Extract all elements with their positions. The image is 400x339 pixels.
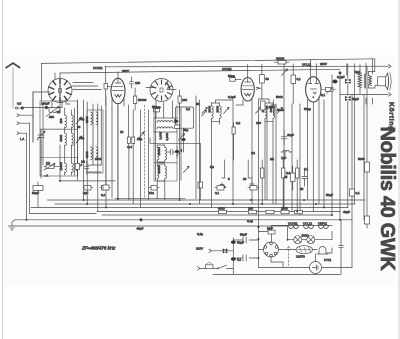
mains switch xyxy=(217,265,233,269)
svg-text:160µF: 160µF xyxy=(41,102,50,106)
resistor bus row 1 xyxy=(218,207,227,214)
IF T3 pair upper xyxy=(157,145,182,162)
svg-text:48µF: 48µF xyxy=(137,227,144,231)
wire top rail C xyxy=(60,69,340,73)
thermo dome xyxy=(317,247,328,255)
pot arrow V5 xyxy=(282,69,288,76)
resistor V5 left xyxy=(260,65,270,100)
wire bus y215 xyxy=(102,214,332,216)
wire h180 xyxy=(60,180,115,182)
tube V2 xyxy=(111,72,125,104)
node terminal A1 xyxy=(17,114,24,117)
tube V5 xyxy=(302,60,327,103)
wire antenna row xyxy=(24,101,63,108)
svg-text:50: 50 xyxy=(196,102,200,106)
coil OSC4 xyxy=(96,147,98,160)
svg-text:5µF: 5µF xyxy=(355,70,360,74)
wire top rail A xyxy=(42,59,375,64)
svg-text:UCL11: UCL11 xyxy=(303,222,312,226)
svg-text:50µµ: 50µµ xyxy=(228,74,235,78)
wire pairA xyxy=(212,100,234,207)
speaker xyxy=(378,73,391,90)
wire bus y226 xyxy=(15,225,287,227)
svg-text:50µF: 50µF xyxy=(32,191,39,195)
dashed gang line right xyxy=(144,105,146,198)
cap hang right xyxy=(300,170,307,191)
wire heater top xyxy=(283,224,332,226)
mains vertical xyxy=(232,238,234,274)
svg-text:50000: 50000 xyxy=(138,98,147,102)
svg-text:290V: 290V xyxy=(320,62,327,66)
mains terminal 1 xyxy=(196,247,233,253)
fuse xyxy=(206,263,219,269)
svg-text:30: 30 xyxy=(243,177,247,181)
grid cap 500 xyxy=(152,105,161,112)
svg-text:500µµ: 500µµ xyxy=(152,105,161,109)
svg-text:UCH11: UCH11 xyxy=(288,222,298,226)
wire bus y211 xyxy=(97,211,340,213)
wire term3 drop xyxy=(25,133,27,220)
cap blob 2 xyxy=(231,257,242,261)
resistor RF col xyxy=(75,157,79,176)
svg-text:L A: L A xyxy=(20,137,24,141)
svg-text:UCH11: UCH11 xyxy=(93,66,103,70)
resistor bus row 2 xyxy=(248,207,257,214)
grid box V2 xyxy=(104,66,110,106)
svg-text:40µF: 40µF xyxy=(343,210,350,214)
pot arrow 5000 xyxy=(44,164,55,171)
wire bus y200 xyxy=(48,199,366,201)
shield divider RF xyxy=(40,129,78,157)
resistor row mid 2 xyxy=(243,160,254,188)
resistor V5 left2 xyxy=(291,64,301,104)
cap below V5 row2 xyxy=(271,100,284,115)
coil OSC2 xyxy=(96,112,98,125)
svg-text:0,5: 0,5 xyxy=(17,102,22,106)
capacitor bowtie 1 xyxy=(345,64,351,95)
svg-text:50µF: 50µF xyxy=(352,97,359,101)
coil OSC1 xyxy=(85,112,92,125)
svg-text:25: 25 xyxy=(57,110,61,114)
node terminal E xyxy=(17,132,25,135)
wire V3 drops xyxy=(156,96,200,204)
IF T2 box xyxy=(154,118,177,141)
resistor row mid 4 xyxy=(282,160,291,207)
node dot x340 xyxy=(339,72,341,74)
svg-text:0,1: 0,1 xyxy=(297,77,302,81)
coil 500 antenna xyxy=(46,107,60,120)
node dot bus xyxy=(140,219,142,221)
capacitor 4uF b xyxy=(100,186,110,191)
resistor 1ohm xyxy=(46,161,54,168)
node dot power xyxy=(287,239,289,241)
resistor top H xyxy=(275,57,290,65)
wire V2 pins xyxy=(112,98,124,199)
wire bus y213 left xyxy=(30,213,97,215)
grid cap V3 xyxy=(178,90,187,112)
svg-text:40µF: 40µF xyxy=(287,133,294,137)
capacitor antenna coupling xyxy=(16,107,24,109)
svg-text:10000: 10000 xyxy=(157,147,161,156)
heater hump 2 xyxy=(303,222,314,229)
capacitor 160pF xyxy=(41,102,50,109)
heater resistor NSF xyxy=(267,227,275,235)
barretter oval xyxy=(296,246,312,259)
svg-text:10n: 10n xyxy=(149,191,154,195)
output transformer xyxy=(358,65,378,95)
svg-text:50µµ: 50µµ xyxy=(304,107,311,111)
capacitor bowtie 2 xyxy=(345,96,359,207)
wire ground bus xyxy=(15,219,352,221)
node terminal A2 xyxy=(17,122,24,125)
wire transformer rails xyxy=(366,59,373,104)
wire V4 pins xyxy=(236,100,252,205)
wire top rail B xyxy=(105,65,388,68)
svg-text:UCL11: UCL11 xyxy=(302,63,311,67)
svg-text:2Ω: 2Ω xyxy=(270,157,275,161)
cap 40uF plus xyxy=(282,130,295,145)
wire V1 drops xyxy=(52,100,70,112)
power socket xyxy=(264,242,279,257)
svg-text:100: 100 xyxy=(59,118,63,123)
svg-text:0,1: 0,1 xyxy=(356,191,361,195)
cap mid 1 xyxy=(215,186,226,196)
svg-text:500: 500 xyxy=(49,115,54,119)
shield box IFT2 xyxy=(154,105,177,181)
lamp 1 xyxy=(294,236,302,244)
ground xyxy=(9,220,16,230)
resistor row mid 5 xyxy=(296,160,299,211)
svg-text:→A: →A xyxy=(43,174,48,178)
svg-text:0,1µF: 0,1µF xyxy=(228,95,236,99)
resistor row mid 3 xyxy=(261,160,264,204)
label cluster extras xyxy=(57,70,360,236)
svg-text:ZF=468/476 kHz: ZF=468/476 kHz xyxy=(81,246,116,251)
variable cap gang right xyxy=(137,132,144,140)
wire pairB xyxy=(258,99,273,204)
svg-text:10000: 10000 xyxy=(59,162,63,171)
cap mains pair2 xyxy=(238,255,254,261)
wire power internals xyxy=(258,225,332,267)
svg-text:5000: 5000 xyxy=(59,134,63,141)
svg-text:30µ: 30µ xyxy=(79,117,84,121)
svg-text:5000: 5000 xyxy=(277,108,284,112)
svg-text:NSF: NSF xyxy=(267,227,273,231)
svg-text:220V: 220V xyxy=(196,247,203,251)
svg-text:4000: 4000 xyxy=(218,207,225,211)
dashed gang line xyxy=(40,141,42,175)
resistor hang right xyxy=(284,166,295,190)
antenna xyxy=(6,63,19,108)
svg-text:0,1µ: 0,1µ xyxy=(197,232,203,236)
wire V1 top xyxy=(55,73,60,79)
IF pair A xyxy=(202,103,229,121)
capacitor 4uF xyxy=(83,186,93,196)
wire bus y207 xyxy=(31,206,348,208)
wire rf join xyxy=(43,104,65,165)
svg-text:U2070: U2070 xyxy=(296,255,305,259)
pot tube5 right xyxy=(322,88,337,94)
cap mid 2 xyxy=(248,186,259,191)
junction dots buses xyxy=(26,180,342,259)
variable cap gang left xyxy=(37,130,45,178)
wire h198 xyxy=(115,198,185,200)
resistor bus row 5 xyxy=(295,210,303,213)
wire lamps xyxy=(288,232,332,240)
svg-text:UCH11: UCH11 xyxy=(222,67,232,71)
svg-text:0,003: 0,003 xyxy=(159,132,163,140)
shield RF1 xyxy=(75,100,78,180)
svg-text:1Ω: 1Ω xyxy=(81,160,86,164)
page edge left xyxy=(2,0,4,339)
trimmer T2 xyxy=(76,136,82,143)
wire mid verticals xyxy=(84,96,106,212)
coil OSC3 xyxy=(85,147,92,160)
capacitor 10 xyxy=(149,186,159,196)
tube V3 socket xyxy=(146,79,176,102)
IF T3 pair lower xyxy=(157,164,189,181)
right small box 2 xyxy=(365,216,370,224)
svg-text:0,1: 0,1 xyxy=(101,193,106,197)
svg-text:5Ω: 5Ω xyxy=(210,165,215,169)
box 0,1 on diode line xyxy=(198,182,203,200)
IF T2 trimmer xyxy=(179,134,185,141)
wire speaker corner xyxy=(340,59,391,96)
svg-text:50µF: 50µF xyxy=(240,233,247,237)
wire term1 drop xyxy=(24,92,34,142)
svg-text:3000: 3000 xyxy=(215,105,219,112)
svg-text:50: 50 xyxy=(266,77,270,81)
wire V5 pins xyxy=(308,98,320,212)
wire left col drops xyxy=(44,145,60,181)
IF pair B xyxy=(256,103,283,121)
svg-text:15µ: 15µ xyxy=(137,137,142,141)
page edge right xyxy=(398,0,400,339)
svg-text:3000: 3000 xyxy=(95,157,102,161)
resistor bus row 3 xyxy=(266,210,274,213)
diode loop box xyxy=(174,107,206,158)
shield box OSC xyxy=(87,110,103,173)
svg-text:20000: 20000 xyxy=(276,57,285,61)
svg-text:50: 50 xyxy=(300,187,304,191)
svg-text:UY11: UY11 xyxy=(324,258,332,262)
wire mains joins xyxy=(233,240,258,258)
padding caps xyxy=(127,137,135,149)
svg-text:100: 100 xyxy=(135,81,140,85)
coil RF2b xyxy=(72,131,74,148)
svg-text:0,1: 0,1 xyxy=(321,93,326,97)
cap RF col xyxy=(85,161,89,174)
svg-text:1Ω: 1Ω xyxy=(251,151,256,155)
node dot x332 xyxy=(333,80,337,83)
svg-text:45: 45 xyxy=(284,175,288,179)
coil RF2a xyxy=(59,131,66,148)
heater hump 3 xyxy=(318,222,329,229)
svg-text:100: 100 xyxy=(182,98,187,102)
wire top shield xyxy=(41,63,43,101)
svg-text:0,1µ: 0,1µ xyxy=(247,219,253,223)
svg-text:0,003: 0,003 xyxy=(165,133,169,141)
cap blob 50uF xyxy=(231,241,244,245)
svg-text:10: 10 xyxy=(120,130,124,134)
svg-text:3000: 3000 xyxy=(207,105,211,112)
cap 50uF left xyxy=(32,182,43,207)
box x352 xyxy=(350,95,361,220)
svg-text:Nobilis 40 GWK: Nobilis 40 GWK xyxy=(376,126,398,271)
cap mains pair xyxy=(238,233,254,244)
wire diode loop xyxy=(150,138,200,182)
svg-text:UBF11: UBF11 xyxy=(318,222,327,226)
svg-text:100: 100 xyxy=(256,121,261,125)
wire bus y204 xyxy=(55,203,355,205)
cap below V5 row xyxy=(260,101,273,110)
resistor row mid 1 xyxy=(220,160,230,188)
svg-text:0,1: 0,1 xyxy=(304,167,309,171)
svg-text:30µ: 30µ xyxy=(79,136,84,140)
coil RF3a xyxy=(59,148,66,175)
dashed switch link xyxy=(287,247,291,266)
resistor 50000 grid xyxy=(129,77,146,110)
svg-text:5000: 5000 xyxy=(276,95,283,99)
electrolytic 4uF osc xyxy=(101,185,109,197)
heater hump 1 xyxy=(288,222,299,229)
svg-text:1000: 1000 xyxy=(281,207,288,211)
shield IFT2 xyxy=(156,108,182,180)
svg-text:5000: 5000 xyxy=(358,157,365,161)
shield box RF xyxy=(40,101,78,176)
svg-text:0,1µF: 0,1µF xyxy=(337,75,345,79)
svg-text:4+4: 4+4 xyxy=(127,145,132,149)
svg-text:0,1: 0,1 xyxy=(215,191,220,195)
coil RF1b xyxy=(72,110,74,131)
lamp 2 xyxy=(307,236,315,244)
grid cap V4 xyxy=(232,123,235,160)
svg-text:0,2: 0,2 xyxy=(236,121,241,125)
right verticals xyxy=(258,64,367,267)
coil RF3b xyxy=(72,148,74,175)
trimmer T1 xyxy=(76,117,82,129)
resistor bus row 4 xyxy=(281,207,289,214)
svg-text:7µF: 7µF xyxy=(281,156,286,160)
svg-text:30000: 30000 xyxy=(157,165,161,174)
tube V1 socket xyxy=(33,79,101,143)
coil RF1a xyxy=(59,108,66,131)
right small box 5000 xyxy=(358,157,370,172)
svg-text:290V: 290V xyxy=(122,69,129,73)
mains plug cap bowtie xyxy=(223,248,228,253)
svg-text:0,1: 0,1 xyxy=(186,107,191,111)
wire osc h xyxy=(88,165,101,172)
trimmer T3 xyxy=(76,164,82,171)
wire power bottom xyxy=(213,220,352,275)
coil hang right xyxy=(281,150,292,160)
wire term2 drop xyxy=(24,123,30,213)
svg-text:50µF: 50µF xyxy=(326,193,333,197)
wire mid verticals2 xyxy=(106,105,149,207)
shield divider IFT2 xyxy=(154,162,177,164)
mains terminal 2 xyxy=(198,267,206,270)
svg-text:100: 100 xyxy=(248,207,253,211)
rectifier circle xyxy=(310,258,332,274)
tube V4 xyxy=(222,65,260,102)
